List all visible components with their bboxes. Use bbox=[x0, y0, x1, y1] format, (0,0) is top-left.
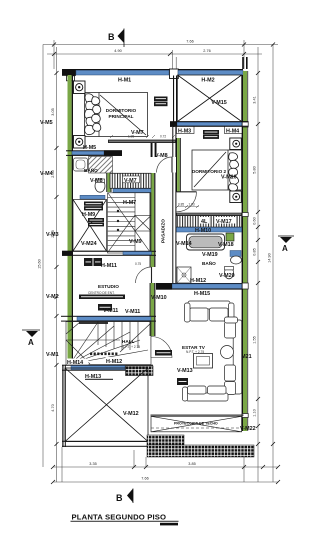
section marker A right bbox=[278, 236, 294, 253]
svg-text:1.55: 1.55 bbox=[253, 336, 257, 343]
stair block bbox=[108, 193, 152, 253]
svg-text:0.72: 0.72 bbox=[160, 134, 166, 138]
svg-text:7.66: 7.66 bbox=[186, 40, 193, 44]
toilet bbox=[95, 180, 105, 192]
svg-text:3.41: 3.41 bbox=[253, 96, 257, 103]
svg-text:3.05: 3.05 bbox=[51, 108, 55, 115]
wall under dormitorio principal bbox=[108, 134, 176, 143]
shower square bbox=[177, 267, 191, 283]
dorm2 bottom wall bbox=[176, 213, 242, 216]
svg-text:PLANTA SEGUNDO PISO: PLANTA SEGUNDO PISO bbox=[72, 513, 167, 522]
svg-text:H-M2: H-M2 bbox=[201, 78, 214, 84]
svg-text:0.60: 0.60 bbox=[253, 217, 257, 224]
svg-text:V-M11: V-M11 bbox=[125, 309, 140, 315]
svg-text:15.60: 15.60 bbox=[38, 259, 42, 269]
svg-text:V-M2: V-M2 bbox=[46, 294, 59, 300]
svg-text:DORMITORIO: DORMITORIO bbox=[106, 108, 137, 113]
svg-text:BAÑO: BAÑO bbox=[84, 167, 98, 173]
svg-text:V-M17: V-M17 bbox=[216, 219, 232, 225]
svg-text:N.P.T. + 2.75: N.P.T. + 2.75 bbox=[122, 345, 140, 349]
svg-text:H-M11: H-M11 bbox=[101, 263, 117, 269]
svg-text:3.85: 3.85 bbox=[188, 462, 195, 466]
estudio bottom window bbox=[61, 316, 156, 324]
svg-text:V-M14: V-M14 bbox=[176, 241, 192, 247]
shower diagonal hatch bbox=[89, 157, 113, 174]
window H-M2 bbox=[178, 70, 243, 75]
wall with window H-M5 bbox=[66, 150, 122, 156]
interior green wall pasadizo-left bbox=[150, 173, 156, 336]
svg-text:A: A bbox=[282, 244, 288, 253]
dorm2 door arc bbox=[177, 192, 197, 212]
wall under vm24/stairs bbox=[62, 251, 156, 256]
window H-M1 bbox=[76, 70, 169, 75]
sofa bottom bbox=[183, 386, 229, 401]
svg-text:V-M4: V-M4 bbox=[40, 171, 53, 177]
svg-text:3.35: 3.35 bbox=[89, 462, 96, 466]
svg-text:CENTRO DE ENT.: CENTRO DE ENT. bbox=[88, 291, 115, 295]
svg-text:H-M12: H-M12 bbox=[106, 359, 122, 365]
svg-text:4.70: 4.70 bbox=[51, 404, 55, 411]
terrace hatch bbox=[147, 435, 254, 457]
svg-text:PROYECCION DE TECHO: PROYECCION DE TECHO bbox=[174, 422, 218, 426]
sofa right column bbox=[225, 317, 242, 395]
left chain vertical dim line bbox=[56, 47, 58, 482]
svg-text:V-M11: V-M11 bbox=[103, 308, 118, 314]
dimension tick marks bbox=[51, 43, 280, 485]
svg-text:BAÑO: BAÑO bbox=[202, 260, 216, 266]
svg-text:V-M3: V-M3 bbox=[46, 232, 59, 238]
svg-text:V-M1: V-M1 bbox=[46, 352, 59, 358]
svg-text:V-M7: V-M7 bbox=[124, 178, 137, 184]
toilet2 bbox=[224, 267, 233, 279]
boxed label left bbox=[177, 378, 188, 385]
left exterior wall (green) bbox=[62, 75, 73, 447]
svg-text:0.85: 0.85 bbox=[178, 203, 184, 207]
svg-text:H-M9: H-M9 bbox=[82, 212, 95, 218]
nightstand dorm2 bottom bbox=[230, 191, 242, 203]
svg-text:ESTUDIO: ESTUDIO bbox=[98, 284, 119, 289]
bottom chain dimension line bbox=[53, 466, 278, 468]
svg-text:0.85: 0.85 bbox=[253, 248, 257, 255]
left outer vertical dim line bbox=[42, 45, 44, 468]
wall between H-M1 / H-M2 rooms bbox=[173, 76, 177, 128]
right exterior wall (green) bbox=[242, 57, 249, 431]
dimension texts bbox=[38, 40, 272, 481]
room dormitorio principal bbox=[106, 108, 144, 136]
svg-text:V-M12: V-M12 bbox=[123, 411, 139, 417]
svg-text:7.66: 7.66 bbox=[141, 477, 148, 481]
bottom total dimension line bbox=[53, 481, 278, 483]
top total dimension line bbox=[43, 44, 278, 46]
boxed closet label in dorm1 bbox=[154, 97, 168, 107]
window H-M10 bbox=[176, 227, 242, 232]
svg-text:14.90: 14.90 bbox=[268, 253, 272, 263]
bottom extension stubs bbox=[61, 447, 63, 482]
svg-text:V-M19: V-M19 bbox=[202, 252, 218, 258]
room V-M15 (void with X) bbox=[178, 75, 242, 122]
sofa top bbox=[185, 301, 235, 322]
svg-text:V-M15: V-M15 bbox=[211, 100, 227, 106]
svg-text:H-M10: H-M10 bbox=[195, 228, 211, 234]
closet boxed label bbox=[203, 130, 219, 134]
svg-text:V-M24: V-M24 bbox=[81, 241, 97, 247]
svg-text:A: A bbox=[28, 338, 34, 347]
round table bbox=[221, 346, 234, 359]
right chain vertical dim line bbox=[257, 47, 259, 482]
TV unit bbox=[194, 354, 213, 369]
top chain dimension line bbox=[47, 53, 262, 55]
svg-text:HALL: HALL bbox=[122, 339, 135, 344]
svg-text:V-M20: V-M20 bbox=[219, 273, 235, 279]
nightstand top bbox=[74, 81, 86, 94]
bathtub bbox=[187, 234, 225, 250]
svg-text:0.75: 0.75 bbox=[135, 262, 141, 266]
svg-text:H-M3: H-M3 bbox=[178, 129, 191, 135]
wall under V-M15 with windows H-M3 and H-M4 bbox=[170, 121, 248, 127]
svg-text:1.98: 1.98 bbox=[128, 134, 134, 138]
sink2 bbox=[231, 256, 242, 264]
svg-text:V-M13: V-M13 bbox=[177, 368, 193, 374]
door arc V-M8 bbox=[171, 157, 173, 173]
svg-text:V-M5: V-M5 bbox=[40, 120, 53, 126]
svg-text:V-M10: V-M10 bbox=[151, 295, 167, 301]
top exterior wall bbox=[62, 69, 243, 81]
svg-text:2.76: 2.76 bbox=[203, 49, 210, 53]
svg-text:1.10: 1.10 bbox=[253, 409, 257, 416]
left margin window labels bbox=[40, 120, 59, 358]
interior green wall right of bath bbox=[106, 173, 111, 192]
svg-text:V-M9: V-M9 bbox=[129, 239, 142, 245]
top extension stubs bbox=[53, 40, 55, 69]
svg-text:V-M8: V-M8 bbox=[90, 178, 103, 184]
section marker A left bbox=[22, 330, 40, 347]
svg-text:B: B bbox=[108, 32, 115, 42]
svg-text:4.90: 4.90 bbox=[114, 49, 121, 53]
svg-text:V-M22: V-M22 bbox=[240, 426, 256, 432]
svg-text:PASADIZO: PASADIZO bbox=[161, 219, 166, 243]
svg-text:V-M18: V-M18 bbox=[218, 242, 234, 248]
pasadizo right wall bbox=[172, 127, 176, 283]
nightstand bottom bbox=[74, 136, 86, 149]
window sliver under closet bbox=[113, 189, 151, 193]
interior green wall between corridor and dorm2 bbox=[176, 138, 181, 192]
svg-text:H-M15: H-M15 bbox=[194, 291, 210, 297]
closet V-M7 hatch bbox=[110, 173, 151, 188]
svg-text:H-M5: H-M5 bbox=[83, 145, 96, 151]
svg-text:4L: 4L bbox=[201, 219, 208, 225]
section marker B bottom bbox=[116, 489, 133, 504]
svg-text:5.80: 5.80 bbox=[253, 166, 257, 173]
sink counter bbox=[74, 158, 88, 171]
svg-text:H-M7: H-M7 bbox=[123, 200, 136, 206]
svg-text:V-M16: V-M16 bbox=[221, 175, 237, 181]
svg-text:H-M1: H-M1 bbox=[118, 78, 131, 84]
bottom wall of X room bbox=[62, 441, 148, 447]
green niche bbox=[226, 233, 234, 241]
right outer vertical dim line bbox=[272, 45, 274, 483]
living door arc bbox=[151, 337, 172, 358]
nightstand dorm2 top bbox=[230, 138, 242, 150]
svg-text:H-M4: H-M4 bbox=[226, 129, 239, 135]
white text dashes inside dark label boxes bbox=[81, 98, 218, 382]
svg-text:DORMITORIO 2: DORMITORIO 2 bbox=[192, 169, 227, 174]
svg-text:PRINCIPAL: PRINCIPAL bbox=[109, 114, 134, 119]
svg-text:B: B bbox=[116, 493, 123, 503]
bed dorm2 bbox=[192, 150, 242, 191]
estudio door arc bbox=[135, 262, 152, 283]
section marker B top bbox=[108, 29, 124, 48]
small blue window right bbox=[230, 251, 241, 257]
bed dormitorio principal bbox=[85, 93, 148, 137]
